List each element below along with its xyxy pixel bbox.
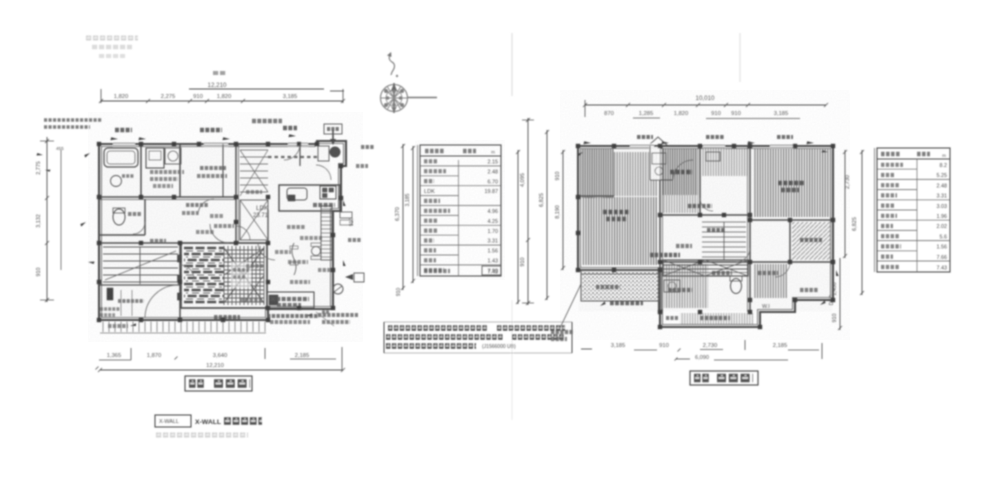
svg-text:1,820: 1,820 [114,94,129,100]
2F niche room top (washlet) [649,147,660,180]
table row 6 [420,214,459,216]
roof marks above 2F wall [637,135,653,139]
svg-text:6,370: 6,370 [395,207,401,221]
svg-text:455: 455 [56,146,64,151]
svg-text:1,365: 1,365 [107,353,122,359]
meter circle [333,284,343,294]
2F table row 10 [877,260,950,262]
svg-text:910: 910 [36,268,42,277]
2F hatching: kids room top-middle [662,149,698,195]
fold mark lines [511,33,513,96]
2F stairs center [702,221,746,223]
structural posts 1F [97,142,343,322]
washstand [146,148,164,168]
right side annotations 1F [361,145,374,149]
svg-text:4,095: 4,095 [520,173,526,187]
structural posts 2F [576,144,835,329]
1F plan title box [185,376,252,391]
2F outer wall [578,146,833,327]
svg-text:3.31: 3.31 [937,194,948,200]
door arc lower-left [145,285,178,318]
tatami left dashed rows [184,248,224,302]
small arrows left edge [36,153,43,158]
2F W.I.C [792,222,831,260]
svg-text:3.03: 3.03 [937,204,948,210]
bath stool [111,176,122,187]
svg-text:910: 910 [396,288,402,297]
2F small room top-right-of-middle [702,148,747,176]
hall text [650,253,680,257]
2F plan title box [690,371,758,385]
toilet [113,209,125,225]
dining table symbols [312,247,321,256]
svg-text:3,132: 3,132 [36,214,42,228]
2F protrusion interior [680,313,754,325]
notes below 1F plan [214,315,240,319]
svg-text:1,870: 1,870 [147,353,162,359]
table row 5 [420,205,501,207]
table row 7 [420,224,501,226]
entry porch fill [330,147,341,158]
table row 3 [420,185,501,187]
windows top wall 2F [630,144,794,149]
table row 1 [420,165,501,167]
compass baseline [408,97,437,99]
svg-text:12,210: 12,210 [208,82,227,89]
faint scan tint 2F [579,147,832,311]
svg-text:1.96: 1.96 [937,214,948,220]
storage under stairs [240,200,268,240]
X-WALL legend [155,415,191,427]
cupboard marks right [340,212,352,218]
svg-text:8.2: 8.2 [940,163,948,169]
hall lower-left 1F [103,247,178,282]
leader text right of storage box [318,313,358,317]
tatami hatched block [181,243,267,308]
2F table row 1 [877,168,917,170]
svg-text:6,825: 6,825 [539,193,545,207]
40600 ghost text [118,299,144,303]
upper stair flight 1F [240,149,268,151]
svg-text:7.66: 7.66 [937,255,948,261]
1F interior walls [99,196,236,198]
door arrow + box right [345,274,353,280]
tatami edge brackets [178,255,182,262]
2F misc arrows [577,152,584,157]
svg-text:X-WALL: X-WALL [195,419,221,426]
svg-text:910: 910 [193,94,203,100]
1F top segment dimension line [101,100,343,102]
storage box bottom-right 1F [267,292,314,308]
middle vertical dim 6,370 [402,144,404,290]
2F right column room marks [775,262,790,277]
svg-text:7.43: 7.43 [937,266,948,272]
2F table row 5 [877,209,917,211]
svg-text:910: 910 [520,257,526,266]
svg-text:6,090: 6,090 [695,355,709,361]
2F hatching: master bedroom [581,149,614,198]
2F right-side door arcs [736,248,750,262]
washroom text [150,170,184,174]
svg-text:3,185: 3,185 [611,343,626,349]
door arcs [210,224,229,243]
2F hatching: right bedroom [753,149,830,217]
table footer [424,269,450,273]
2F table row 4 [877,199,950,201]
vent triangles on top wall [110,137,118,142]
dark door post [107,288,113,300]
north arrow [389,53,394,75]
2F table row 6 [877,219,950,221]
1F area table [420,145,501,276]
svg-text:X-WALL: X-WALL [159,419,179,425]
svg-text:2.48: 2.48 [937,183,948,189]
table row 8 [420,234,459,236]
hall text [150,239,166,243]
1F left secondary dim [60,150,62,270]
svg-text:2,185: 2,185 [773,343,788,349]
annotations above 1F wall [115,128,132,133]
2F table row 7 [877,229,917,231]
scattered small fixtures/symbols 1F [186,203,208,207]
counter hash block right wall [321,206,332,260]
1F left dimension line [46,137,48,302]
2F area table [877,148,950,272]
table row 10 [420,254,459,256]
svg-text:(J1566000 UB): (J1566000 UB) [482,344,516,350]
2F left outside dim [562,150,564,270]
2F crossed brace bar [663,260,748,276]
deck boards below 1F [103,322,265,333]
2F interior walls [659,146,661,312]
small marks below-left [108,324,128,328]
table row 12 [424,268,444,272]
2F bottom-right room hatch [753,264,787,298]
construction note block [383,322,385,353]
svg-text:2,275: 2,275 [161,94,176,100]
2F table footer [881,265,899,269]
2F table row 2 [877,178,950,180]
svg-text:6,825: 6,825 [852,217,858,231]
2F bottom-middle rooms [664,264,708,308]
clutter LDK [288,260,308,264]
svg-text:5.6: 5.6 [940,234,948,240]
svg-text:m: m [942,153,946,158]
svg-text:2.02: 2.02 [937,224,948,230]
2F table row 8 [877,240,950,242]
faint scan tint 1F [100,145,330,319]
scan grain overlay [88,90,850,342]
2F balcony (stipple) [581,270,659,301]
ghost line below legend [156,433,248,438]
kitchen island [279,185,340,211]
svg-text:910: 910 [659,343,669,349]
small mark [213,71,227,75]
2F right outside dims [844,150,846,258]
dashed upper-cabinet line [268,156,317,158]
svg-text:3,185: 3,185 [405,193,411,206]
svg-text:3,640: 3,640 [213,353,228,359]
svg-text:3,185: 3,185 [283,94,298,100]
table row 11 [420,264,501,266]
svg-text:5.25: 5.25 [937,173,948,179]
washer [165,148,181,164]
balcony leader note [560,284,581,328]
annotation top-left [44,118,102,122]
svg-text:2,730: 2,730 [703,343,718,349]
table row 4 [420,195,459,197]
ghost smudge top-left [86,36,138,41]
master bedroom label [603,210,629,215]
dim lines right of table [517,150,519,304]
tatami right grid [224,246,264,305]
table row 9 [420,244,501,246]
bath tub [104,148,138,167]
2F table row 3 [877,189,917,191]
svg-text:1,820: 1,820 [217,94,232,100]
svg-text:1.56: 1.56 [937,245,948,251]
svg-text:2,185: 2,185 [295,353,310,359]
2F washbasin bottom-middle [664,280,680,292]
table row 2 [420,175,459,177]
1F outer wall [99,141,346,320]
compass rose [381,85,408,112]
2F table row 9 [877,250,917,252]
svg-text:2,775: 2,775 [36,161,42,175]
svg-text:12,210: 12,210 [206,363,224,369]
windows top wall 1F [113,142,308,147]
